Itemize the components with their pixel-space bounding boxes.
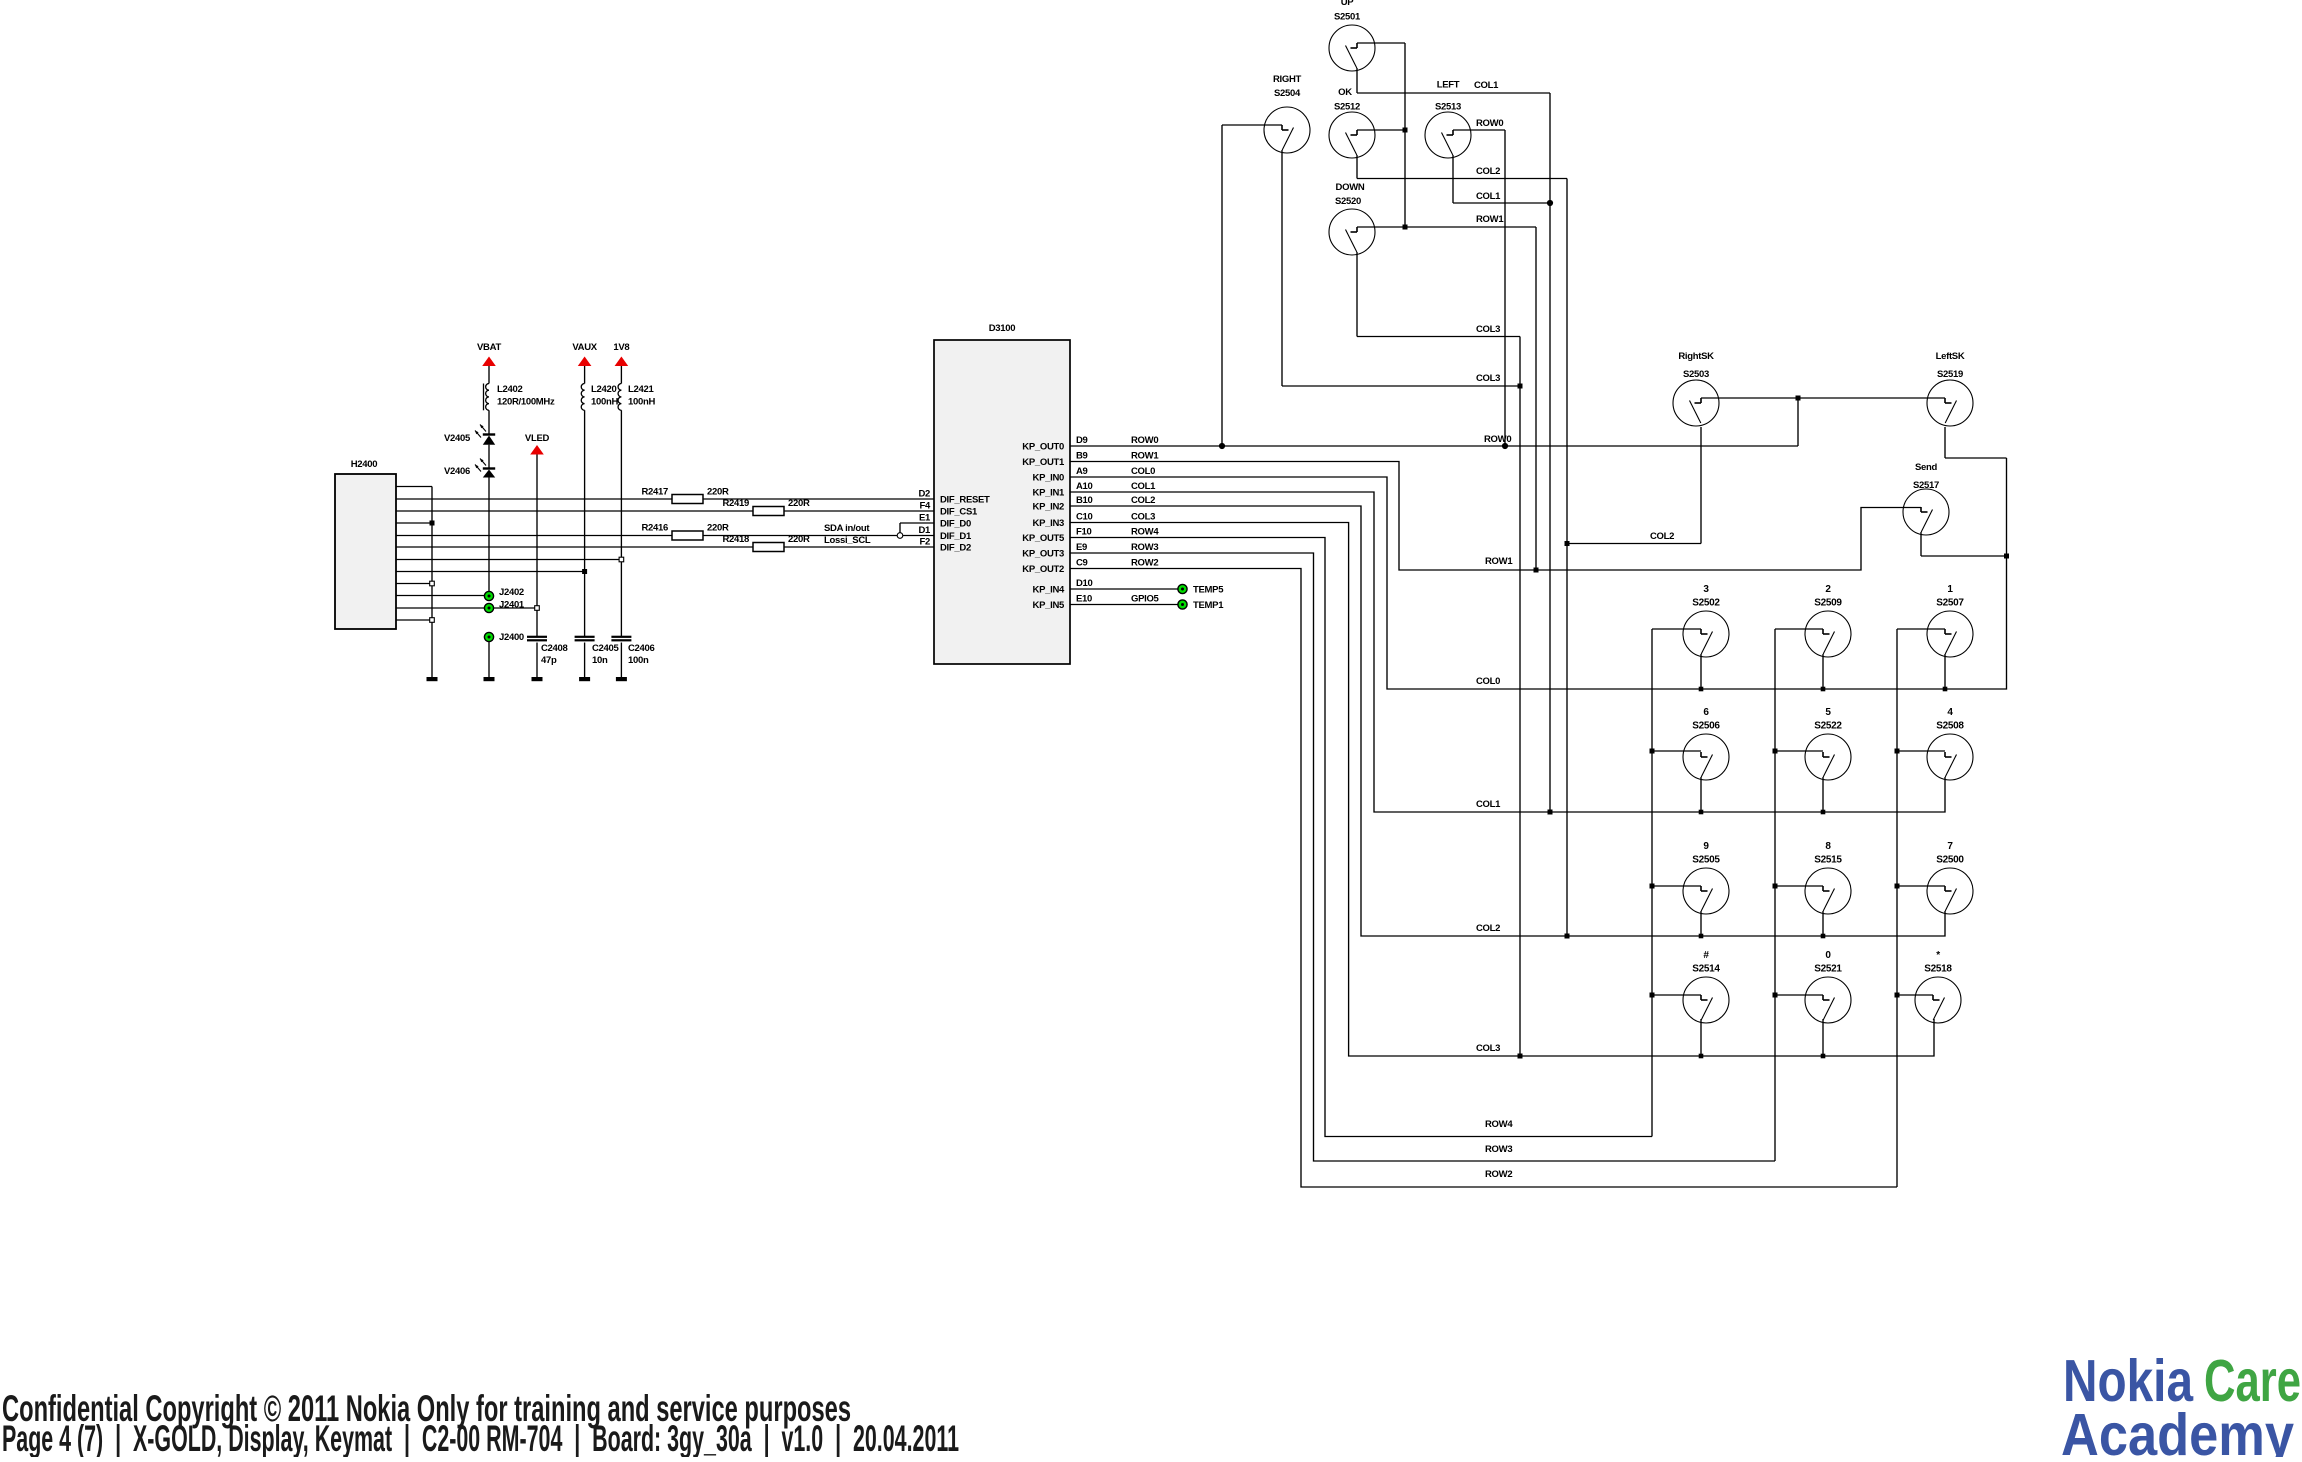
svg-text:S2500: S2500 — [1936, 855, 1964, 866]
svg-text:C2408: C2408 — [541, 643, 568, 654]
svg-text:C2405: C2405 — [592, 643, 620, 654]
svg-text:C2406: C2406 — [628, 643, 655, 654]
svg-text:S2517: S2517 — [1913, 480, 1939, 491]
svg-text:V2406: V2406 — [444, 466, 470, 477]
svg-text:ROW0: ROW0 — [1131, 435, 1158, 446]
svg-text:COL0: COL0 — [1476, 676, 1500, 687]
svg-text:220R: 220R — [788, 498, 810, 509]
svg-text:DIF_RESET: DIF_RESET — [940, 495, 990, 506]
svg-text:L2420: L2420 — [591, 384, 616, 395]
svg-text:F2: F2 — [920, 537, 931, 548]
svg-text:Page 4 (7) | X-GOLD, Display: Page 4 (7) | X-GOLD, Display, Keymat | C… — [2, 1418, 959, 1457]
svg-text:D2: D2 — [918, 489, 930, 500]
svg-text:TEMP5: TEMP5 — [1193, 585, 1224, 596]
svg-text:DIF_CS1: DIF_CS1 — [940, 507, 978, 518]
svg-text:2: 2 — [1825, 584, 1831, 595]
svg-text:DIF_D0: DIF_D0 — [940, 519, 971, 530]
svg-text:COL1: COL1 — [1474, 80, 1499, 91]
svg-text:COL2: COL2 — [1476, 923, 1500, 934]
svg-text:DOWN: DOWN — [1336, 182, 1365, 193]
svg-text:E1: E1 — [919, 513, 931, 524]
svg-text:H2400: H2400 — [351, 459, 378, 470]
svg-text:S2506: S2506 — [1692, 721, 1720, 732]
svg-text:0: 0 — [1825, 950, 1831, 961]
svg-text:220R: 220R — [788, 534, 810, 545]
svg-text:*: * — [1936, 950, 1940, 961]
svg-text:ROW0: ROW0 — [1484, 434, 1511, 445]
svg-text:#: # — [1703, 950, 1709, 961]
svg-text:S2502: S2502 — [1692, 598, 1720, 609]
svg-text:COL3: COL3 — [1476, 1043, 1500, 1054]
svg-text:J2401: J2401 — [499, 600, 525, 611]
svg-text:100n: 100n — [628, 655, 649, 666]
svg-text:LEFT: LEFT — [1437, 80, 1460, 91]
svg-text:KP_IN4: KP_IN4 — [1033, 585, 1065, 596]
svg-text:KP_OUT2: KP_OUT2 — [1022, 564, 1064, 575]
svg-text:100nH: 100nH — [591, 397, 618, 408]
svg-text:A10: A10 — [1076, 481, 1093, 492]
svg-text:S2520: S2520 — [1335, 196, 1361, 207]
svg-text:220R: 220R — [707, 523, 729, 534]
svg-text:S2513: S2513 — [1435, 102, 1461, 113]
svg-text:ROW1: ROW1 — [1131, 451, 1159, 462]
svg-text:S2509: S2509 — [1814, 598, 1842, 609]
svg-text:COL2: COL2 — [1476, 166, 1500, 177]
svg-text:ROW1: ROW1 — [1485, 556, 1513, 567]
svg-text:KP_IN1: KP_IN1 — [1033, 488, 1065, 499]
svg-text:OK: OK — [1338, 87, 1352, 98]
svg-text:ROW3: ROW3 — [1485, 1144, 1512, 1155]
svg-text:DIF_D1: DIF_D1 — [940, 531, 972, 542]
svg-text:3: 3 — [1703, 584, 1709, 595]
svg-text:C10: C10 — [1076, 512, 1093, 523]
svg-text:8: 8 — [1825, 841, 1831, 852]
svg-text:TEMP1: TEMP1 — [1193, 600, 1224, 611]
svg-text:COL2: COL2 — [1131, 495, 1155, 506]
svg-text:S2512: S2512 — [1334, 102, 1360, 113]
svg-text:KP_IN5: KP_IN5 — [1033, 600, 1065, 611]
svg-text:KP_IN3: KP_IN3 — [1033, 518, 1064, 529]
svg-text:Academy: Academy — [2061, 1402, 2294, 1457]
svg-text:5: 5 — [1825, 707, 1831, 718]
svg-text:4: 4 — [1947, 707, 1953, 718]
svg-text:ROW1: ROW1 — [1476, 214, 1504, 225]
svg-text:VBAT: VBAT — [477, 342, 501, 353]
svg-text:7: 7 — [1947, 841, 1953, 852]
svg-text:KP_OUT3: KP_OUT3 — [1022, 549, 1064, 560]
svg-text:ROW3: ROW3 — [1131, 542, 1158, 553]
svg-text:S2501: S2501 — [1334, 12, 1361, 23]
svg-text:COL1: COL1 — [1476, 191, 1501, 202]
svg-text:Lossi_SCL: Lossi_SCL — [824, 535, 871, 546]
svg-text:KP_OUT5: KP_OUT5 — [1022, 533, 1065, 544]
svg-text:E10: E10 — [1076, 594, 1092, 605]
svg-text:ROW2: ROW2 — [1131, 558, 1158, 569]
svg-text:S2508: S2508 — [1936, 721, 1964, 732]
svg-text:D1: D1 — [918, 525, 931, 536]
svg-text:220R: 220R — [707, 487, 729, 498]
svg-text:KP_IN0: KP_IN0 — [1033, 473, 1064, 484]
svg-text:C9: C9 — [1076, 558, 1088, 569]
svg-text:D3100: D3100 — [989, 323, 1016, 334]
svg-text:LeftSK: LeftSK — [1936, 351, 1965, 362]
svg-text:S2515: S2515 — [1814, 855, 1842, 866]
svg-text:ROW4: ROW4 — [1131, 527, 1159, 538]
svg-text:D9: D9 — [1076, 435, 1088, 446]
svg-text:D10: D10 — [1076, 578, 1093, 589]
svg-text:R2417: R2417 — [642, 487, 669, 498]
svg-text:GPIO5: GPIO5 — [1131, 594, 1160, 605]
svg-text:10n: 10n — [592, 655, 608, 666]
svg-text:F10: F10 — [1076, 527, 1091, 538]
svg-text:VAUX: VAUX — [572, 342, 597, 353]
svg-text:1V8: 1V8 — [613, 342, 629, 353]
svg-text:COL2: COL2 — [1650, 531, 1674, 542]
svg-text:B10: B10 — [1076, 495, 1093, 506]
svg-text:100nH: 100nH — [628, 397, 655, 408]
svg-text:E9: E9 — [1076, 542, 1087, 553]
svg-text:A9: A9 — [1076, 466, 1088, 477]
svg-text:J2402: J2402 — [499, 587, 524, 598]
svg-text:ROW2: ROW2 — [1485, 1169, 1512, 1180]
svg-text:COL1: COL1 — [1476, 799, 1501, 810]
svg-text:R2416: R2416 — [642, 523, 669, 534]
svg-text:COL1: COL1 — [1131, 481, 1156, 492]
svg-text:RIGHT: RIGHT — [1273, 74, 1302, 85]
svg-text:R2418: R2418 — [723, 534, 750, 545]
svg-text:J2400: J2400 — [499, 632, 524, 643]
svg-text:SDA in/out: SDA in/out — [824, 523, 870, 534]
svg-text:S2514: S2514 — [1692, 964, 1720, 975]
svg-text:120R/100MHz: 120R/100MHz — [497, 397, 555, 408]
svg-text:COL3: COL3 — [1131, 512, 1155, 523]
svg-text:KP_OUT0: KP_OUT0 — [1022, 442, 1064, 453]
svg-text:R2419: R2419 — [723, 498, 750, 509]
svg-text:S2518: S2518 — [1924, 964, 1952, 975]
svg-text:F4: F4 — [920, 501, 932, 512]
svg-text:47p: 47p — [541, 655, 557, 666]
svg-text:ROW0: ROW0 — [1476, 118, 1503, 129]
svg-text:RightSK: RightSK — [1678, 351, 1714, 362]
svg-text:COL3: COL3 — [1476, 373, 1500, 384]
svg-text:9: 9 — [1703, 841, 1709, 852]
svg-text:S2504: S2504 — [1274, 88, 1301, 99]
svg-text:6: 6 — [1703, 707, 1709, 718]
svg-text:L2402: L2402 — [497, 384, 522, 395]
svg-text:DIF_D2: DIF_D2 — [940, 543, 971, 554]
svg-text:S2503: S2503 — [1683, 369, 1709, 380]
svg-text:S2522: S2522 — [1814, 721, 1842, 732]
svg-text:V2405: V2405 — [444, 433, 471, 444]
svg-text:COL0: COL0 — [1131, 466, 1155, 477]
svg-text:S2519: S2519 — [1937, 369, 1963, 380]
svg-text:Send: Send — [1915, 462, 1938, 473]
svg-text:VLED: VLED — [525, 433, 550, 444]
svg-text:ROW4: ROW4 — [1485, 1119, 1513, 1130]
svg-text:UP: UP — [1341, 0, 1355, 8]
svg-text:S2505: S2505 — [1692, 855, 1720, 866]
svg-text:L2421: L2421 — [628, 384, 654, 395]
svg-text:KP_IN2: KP_IN2 — [1033, 502, 1064, 513]
svg-text:1: 1 — [1947, 584, 1953, 595]
svg-text:B9: B9 — [1076, 451, 1088, 462]
svg-text:COL3: COL3 — [1476, 324, 1500, 335]
svg-text:S2521: S2521 — [1814, 964, 1842, 975]
svg-text:KP_OUT1: KP_OUT1 — [1022, 457, 1065, 468]
svg-text:S2507: S2507 — [1936, 598, 1964, 609]
